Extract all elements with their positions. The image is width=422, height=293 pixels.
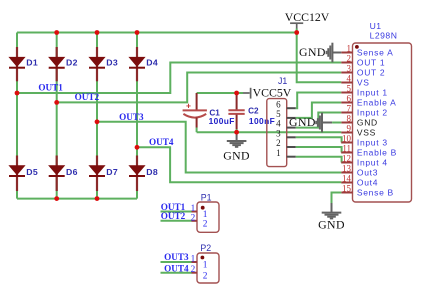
- svg-text:15: 15: [342, 184, 352, 194]
- svg-text:D5: D5: [26, 167, 38, 177]
- svg-text:D6: D6: [66, 167, 78, 177]
- svg-text:2: 2: [191, 212, 196, 222]
- svg-text:GND: GND: [223, 148, 250, 162]
- svg-text:OUT2: OUT2: [161, 211, 186, 221]
- svg-text:D8: D8: [146, 167, 158, 177]
- svg-text:14: 14: [342, 174, 352, 184]
- svg-text:D4: D4: [146, 58, 158, 68]
- svg-text:9: 9: [347, 124, 352, 134]
- svg-text:D1: D1: [26, 58, 38, 68]
- svg-text:OUT3: OUT3: [164, 252, 189, 262]
- svg-text:+: +: [186, 101, 191, 111]
- svg-text:Input 2: Input 2: [357, 107, 388, 117]
- svg-text:OUT1: OUT1: [38, 83, 63, 93]
- svg-text:Input 1: Input 1: [357, 87, 388, 97]
- svg-text:1: 1: [191, 254, 196, 264]
- svg-text:VSS: VSS: [357, 127, 376, 137]
- svg-text:Enable B: Enable B: [357, 147, 397, 157]
- svg-text:L298N: L298N: [370, 30, 398, 40]
- svg-text:1: 1: [347, 44, 352, 54]
- svg-text:100nF: 100nF: [249, 116, 275, 126]
- svg-text:OUT 2: OUT 2: [357, 67, 385, 77]
- svg-text:8: 8: [347, 114, 352, 124]
- svg-text:GND: GND: [289, 115, 316, 129]
- svg-text:P2: P2: [200, 243, 211, 253]
- svg-text:GND: GND: [357, 117, 378, 127]
- svg-text:2: 2: [276, 138, 281, 148]
- svg-text:4: 4: [276, 119, 281, 129]
- svg-text:OUT2: OUT2: [75, 92, 100, 102]
- svg-text:3: 3: [276, 128, 281, 138]
- svg-text:VS: VS: [357, 77, 370, 87]
- svg-text:C2: C2: [248, 106, 259, 115]
- svg-text:Out4: Out4: [357, 177, 378, 187]
- svg-text:2: 2: [191, 264, 196, 274]
- svg-text:VCC5V: VCC5V: [253, 85, 292, 99]
- svg-text:2: 2: [203, 271, 208, 281]
- svg-text:VCC12V: VCC12V: [285, 10, 330, 24]
- svg-text:6: 6: [347, 94, 352, 104]
- svg-text:5: 5: [347, 84, 352, 94]
- svg-text:OUT3: OUT3: [119, 112, 144, 122]
- svg-text:Sense A: Sense A: [357, 47, 394, 57]
- svg-text:J1: J1: [278, 76, 287, 86]
- svg-text:GND: GND: [318, 217, 345, 231]
- svg-text:3: 3: [347, 64, 352, 74]
- svg-text:OUT4: OUT4: [149, 137, 174, 147]
- svg-text:OUT4: OUT4: [164, 263, 189, 273]
- svg-text:Input 3: Input 3: [357, 137, 388, 147]
- svg-text:4: 4: [347, 74, 352, 84]
- svg-text:OUT 1: OUT 1: [357, 57, 385, 67]
- svg-text:6: 6: [276, 99, 281, 109]
- svg-text:D3: D3: [106, 58, 118, 68]
- svg-text:10: 10: [342, 134, 352, 144]
- svg-text:11: 11: [342, 144, 351, 154]
- svg-text:D7: D7: [106, 167, 118, 177]
- svg-text:Enable A: Enable A: [357, 97, 397, 107]
- svg-text:7: 7: [347, 104, 352, 114]
- svg-text:100uF: 100uF: [209, 116, 235, 126]
- svg-text:2: 2: [203, 219, 208, 229]
- svg-text:D2: D2: [66, 58, 78, 68]
- svg-text:P1: P1: [201, 193, 212, 203]
- svg-text:GND: GND: [299, 45, 326, 59]
- svg-text:1: 1: [203, 261, 208, 271]
- svg-text:5: 5: [276, 109, 281, 119]
- svg-text:2: 2: [347, 54, 352, 64]
- svg-text:Input 4: Input 4: [357, 157, 388, 167]
- svg-text:12: 12: [342, 154, 351, 164]
- svg-text:Sense B: Sense B: [357, 187, 394, 197]
- svg-text:Out3: Out3: [357, 167, 378, 177]
- svg-text:1: 1: [276, 148, 281, 158]
- svg-text:13: 13: [342, 164, 352, 174]
